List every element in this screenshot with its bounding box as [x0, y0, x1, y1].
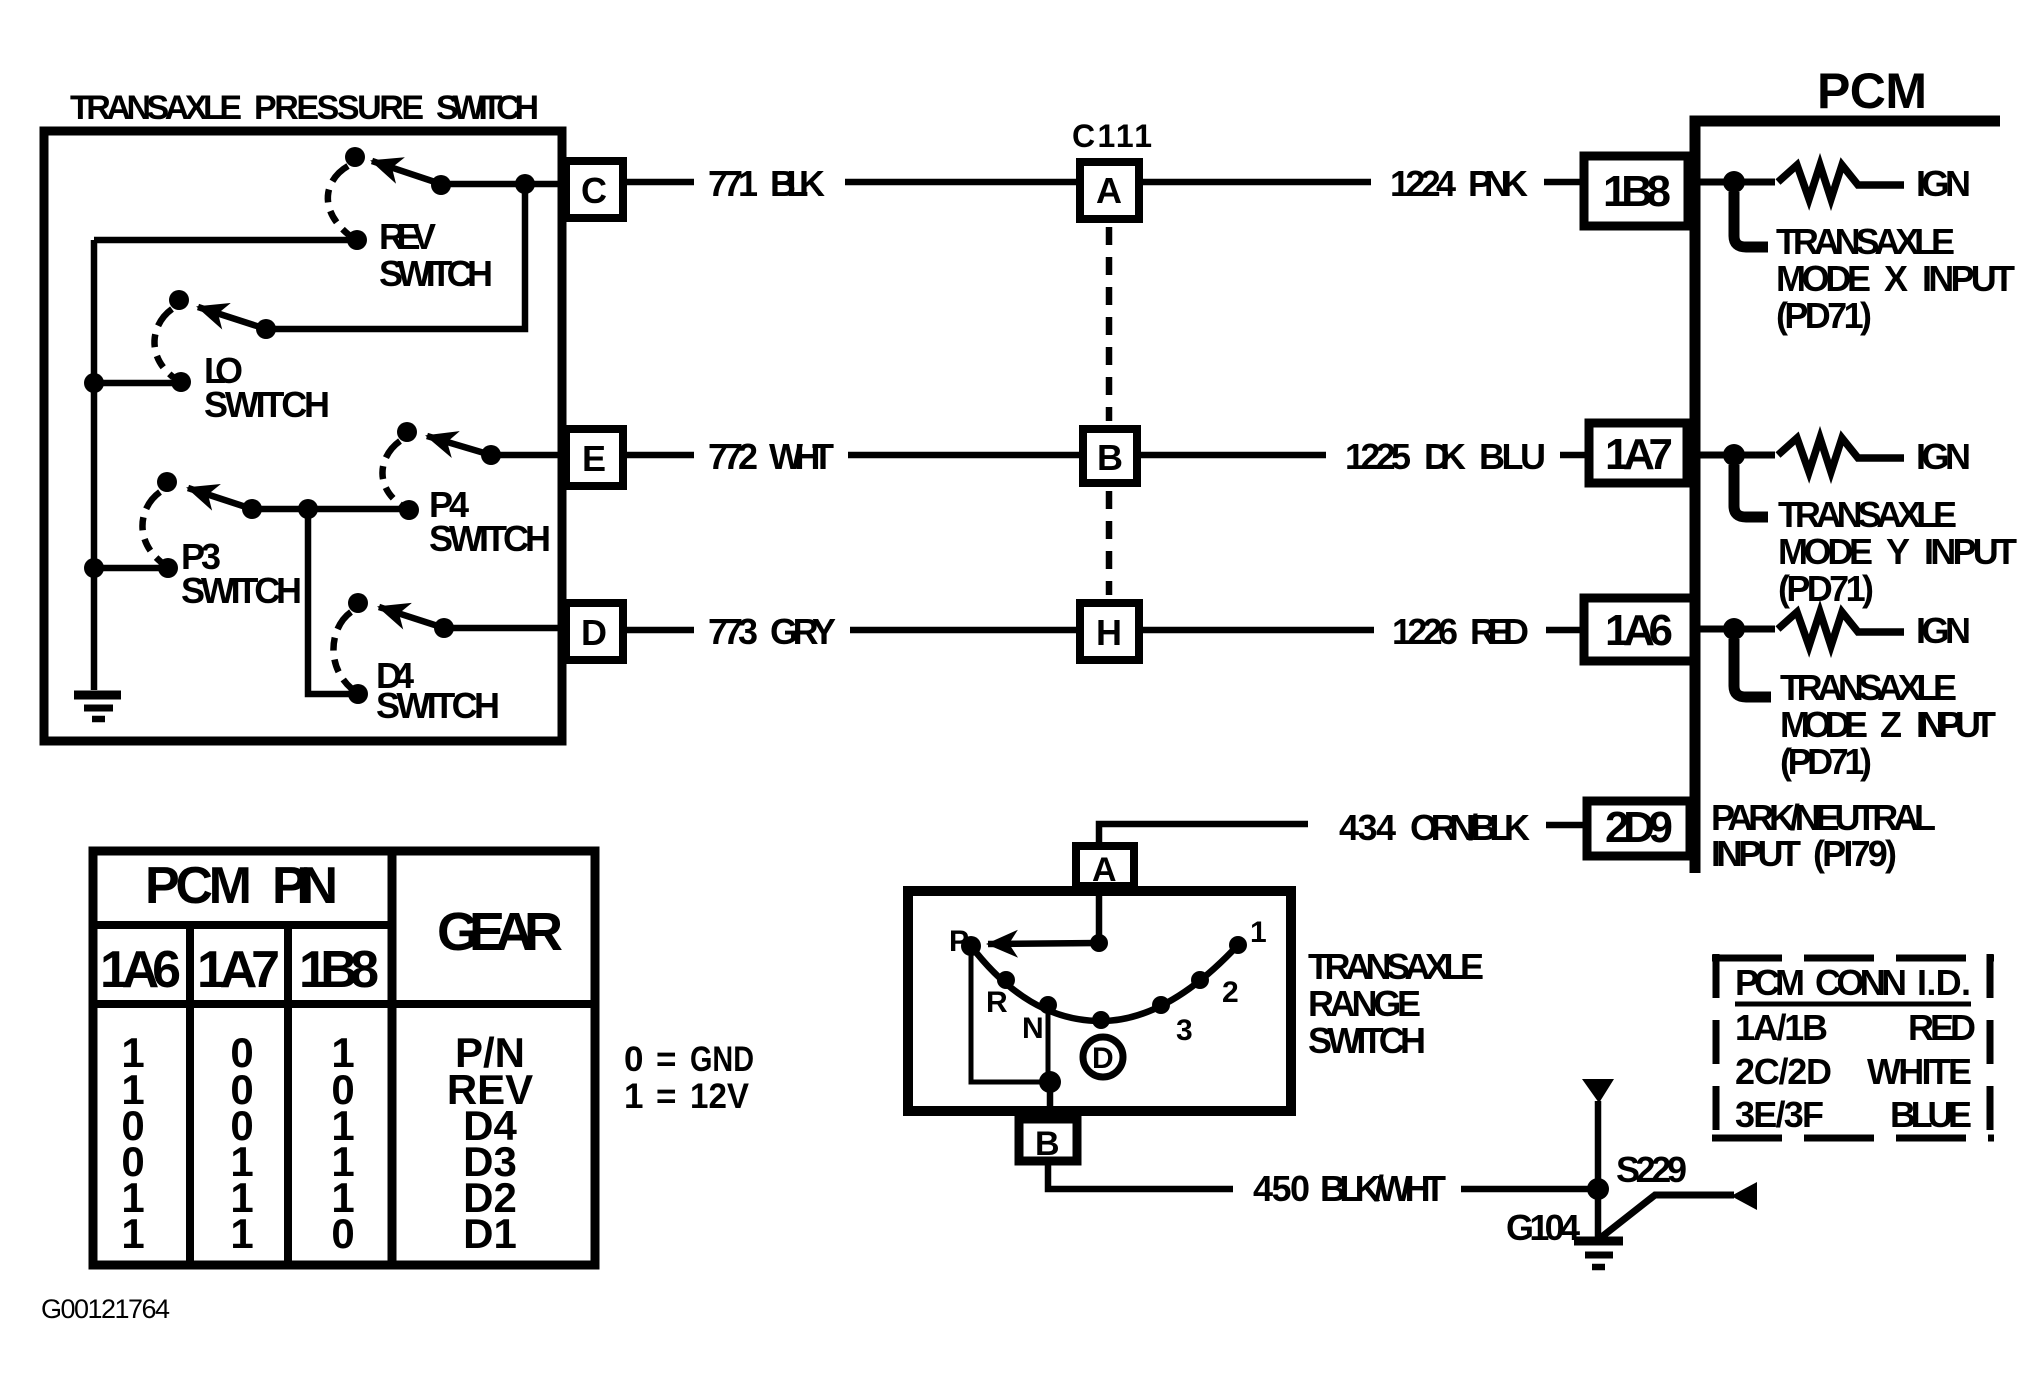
svg-text:IGN: IGN [1916, 163, 1971, 204]
P4 switch wiper arrow [427, 436, 491, 455]
contact 3 [1152, 996, 1170, 1014]
junction P3 common / ground bus [84, 558, 104, 578]
LO switch wiper arrow [198, 307, 266, 329]
wire LO pivot to pin C net [266, 184, 525, 329]
dashed connector link A-B [1106, 227, 1113, 421]
table data column GEAR [447, 1029, 533, 1257]
pin D box [566, 603, 623, 660]
switch D4 [308, 509, 563, 704]
PCM pin 2D9 box [1587, 801, 1690, 856]
D4 switch travel arc [333, 612, 352, 689]
wire 1224 PNK right segment [1544, 179, 1584, 186]
svg-text:C111: C111 [1072, 118, 1152, 154]
svg-text:772: 772 [708, 436, 758, 477]
svg-text:PRESSURE: PRESSURE [254, 89, 424, 127]
svg-text:B: B [1035, 1125, 1060, 1163]
PCM pin 1A7 box [1589, 423, 1687, 483]
svg-text:PCM: PCM [1817, 63, 1927, 119]
P3 switch NO contact [157, 472, 177, 492]
svg-text:C: C [581, 170, 607, 211]
svg-text:=: = [656, 1077, 676, 1116]
svg-text:1A6: 1A6 [100, 941, 181, 999]
wire to ground [1595, 1101, 1602, 1241]
svg-text:GRY: GRY [770, 611, 836, 652]
svg-text:WHITE: WHITE [1867, 1051, 1972, 1092]
svg-text:P: P [949, 925, 969, 958]
svg-text:SWITCH: SWITCH [204, 384, 330, 425]
svg-text:SWITCH: SWITCH [379, 253, 493, 294]
D4 switch pivot contact [434, 618, 454, 638]
svg-text:WHT: WHT [769, 436, 834, 477]
svg-text:Y: Y [1886, 531, 1910, 572]
svg-text:773: 773 [708, 611, 758, 652]
wire 1225 DK BLU left segment [1141, 452, 1326, 459]
svg-text:1225: 1225 [1345, 436, 1411, 477]
wire 1224 PNK left segment [1143, 179, 1371, 186]
svg-text:TRANSAXLE: TRANSAXLE [1780, 667, 1957, 708]
svg-text:E: E [582, 438, 606, 479]
wire 771 BLK left segment [627, 179, 694, 186]
wire 434 ORN/BLK right segment [1546, 822, 1587, 829]
transaxle range switch box [908, 891, 1291, 1111]
svg-text:(PD71): (PD71) [1776, 295, 1872, 336]
junction on pin C wire [515, 174, 535, 194]
continuation wire with arrow [1599, 1195, 1734, 1239]
wire 773 GRY right segment [850, 627, 1080, 634]
PCM PIN / GEAR table [89, 847, 599, 1269]
connector C111 pin A box [1080, 162, 1139, 219]
resistor row 1 (1B8 to IGN) [1700, 165, 1904, 199]
svg-text:INPUT: INPUT [1711, 833, 1801, 874]
table data column 1B8 [331, 1029, 354, 1257]
PCM pin 1A6 box [1584, 598, 1694, 661]
wire 1226 RED right segment [1546, 627, 1584, 634]
svg-text:1: 1 [1250, 916, 1267, 949]
wire contact N to pin B node [1046, 1005, 1051, 1082]
svg-text:INPUT: INPUT [1924, 531, 2017, 572]
node elbow row 3 [1734, 639, 1771, 697]
P4 switch pivot contact [481, 445, 501, 465]
svg-text:434: 434 [1339, 807, 1396, 848]
REV switch pivot contact [431, 175, 451, 195]
PCM box edge [1695, 121, 2000, 873]
svg-text:SWITCH: SWITCH [376, 685, 500, 726]
junction node row 2 [1723, 444, 1745, 466]
svg-text:(PD71): (PD71) [1778, 568, 1874, 609]
svg-text:TRANSAXLE: TRANSAXLE [70, 89, 242, 127]
wire REV pivot to pin C [441, 181, 563, 188]
svg-text:BLK: BLK [770, 163, 825, 204]
svg-text:2D9: 2D9 [1605, 803, 1673, 852]
svg-text:A: A [1092, 851, 1117, 889]
svg-text:D1: D1 [463, 1210, 517, 1257]
svg-text:IGN: IGN [1916, 610, 1971, 651]
svg-text:1A6: 1A6 [1605, 606, 1673, 655]
node on pin A riser [1090, 934, 1108, 952]
transaxle pressure switch box [44, 131, 562, 741]
switch P3 [84, 472, 409, 578]
svg-text:PCM: PCM [145, 857, 252, 915]
svg-text:BLUE: BLUE [1890, 1094, 1972, 1135]
P4 switch travel arc [382, 441, 401, 505]
svg-text:2: 2 [1222, 976, 1239, 1009]
svg-text:RED: RED [1908, 1007, 1976, 1048]
svg-text:=: = [656, 1040, 676, 1079]
svg-text:SWITCH: SWITCH [181, 570, 302, 611]
switch P4 [382, 422, 563, 520]
junction node row 1 [1723, 171, 1745, 193]
splice S229 [1587, 1178, 1609, 1200]
PCM CONN I.D. dashed box [1712, 954, 1994, 1142]
LO switch travel arc [154, 309, 173, 377]
transaxle range switch pin A box [1076, 846, 1134, 886]
svg-text:R: R [986, 986, 1008, 1019]
wire 771 BLK right segment [845, 179, 1080, 186]
pin C box [566, 161, 623, 218]
wire P3 common to ground bus [94, 565, 168, 572]
svg-text:REV: REV [379, 216, 436, 257]
svg-text:1B8: 1B8 [1603, 167, 1671, 216]
svg-text:SWITCH: SWITCH [436, 89, 539, 127]
wire to range pin B [1047, 1082, 1054, 1119]
svg-text:CONN: CONN [1815, 962, 1907, 1003]
switch REV [94, 147, 563, 250]
table data column 1A6 [121, 1029, 144, 1257]
contact 2 [1191, 971, 1209, 989]
svg-text:RED: RED [1470, 611, 1529, 652]
continuation arrow above S229 [1582, 1079, 1614, 1103]
table data column 1A7 [230, 1029, 253, 1257]
svg-text:G104: G104 [1506, 1207, 1580, 1248]
svg-text:TRANSAXLE: TRANSAXLE [1778, 494, 1957, 535]
svg-text:SWITCH: SWITCH [429, 518, 551, 559]
svg-text:N: N [1022, 1012, 1044, 1045]
svg-text:1224: 1224 [1390, 163, 1456, 204]
svg-text:0: 0 [624, 1040, 643, 1079]
contact P [961, 936, 981, 956]
wire 450 BLK/WHT right segment [1461, 1186, 1598, 1193]
pin E box [566, 429, 623, 486]
contact 1 [1229, 936, 1247, 954]
ground [74, 695, 121, 719]
connector C111 pin H box [1080, 603, 1139, 660]
wire LO common to ground bus [94, 380, 181, 387]
svg-text:1A7: 1A7 [1605, 430, 1673, 479]
node elbow row 2 [1734, 465, 1768, 517]
svg-text:MODE: MODE [1780, 704, 1868, 745]
wire D4 pivot to pin D [444, 625, 563, 632]
wire 772 WHT right segment [848, 452, 1083, 459]
svg-text:D: D [581, 612, 607, 653]
svg-text:TRANSAXLE: TRANSAXLE [1308, 946, 1484, 987]
D4 switch NO contact [348, 593, 368, 613]
switch LO [84, 174, 535, 393]
svg-text:PIN: PIN [272, 857, 338, 915]
wire REV common to ground bus [94, 237, 357, 244]
svg-text:(PI79): (PI79) [1813, 833, 1897, 874]
wire 773 GRY left segment [627, 627, 694, 634]
svg-text:H: H [1096, 612, 1122, 653]
svg-text:PNK: PNK [1468, 163, 1528, 204]
P4 switch NO contact [397, 422, 417, 442]
resistor row 2 (1A7 to IGN) [1700, 438, 1904, 472]
D4 switch wiper arrow [379, 607, 444, 628]
svg-text:INPUT: INPUT [1922, 258, 2015, 299]
svg-text:IGN: IGN [1916, 436, 1971, 477]
svg-text:S229: S229 [1616, 1149, 1687, 1190]
dashed connector link B-H [1106, 491, 1113, 595]
range switch contact arc [971, 945, 1238, 1021]
wire 1225 DK BLU right segment [1560, 452, 1589, 459]
ground bus wire [91, 240, 98, 690]
svg-text:1B8: 1B8 [299, 941, 379, 999]
wire range pin A riser [1096, 888, 1103, 943]
svg-text:1A/1B: 1A/1B [1735, 1007, 1828, 1048]
svg-text:X: X [1884, 258, 1908, 299]
svg-text:1: 1 [121, 1210, 144, 1257]
svg-text:SWITCH: SWITCH [1308, 1020, 1426, 1061]
wire 434 ORN/BLK left segment [1099, 824, 1308, 846]
P3 switch wiper arrow [188, 488, 252, 509]
LO switch pivot contact [256, 319, 276, 339]
D4 switch common contact [348, 684, 368, 704]
svg-text:INPUT: INPUT [1916, 704, 1996, 745]
svg-text:1A7: 1A7 [197, 941, 280, 999]
svg-text:Z: Z [1880, 704, 1902, 745]
D position circle [1083, 1037, 1123, 1077]
REV switch travel arc [328, 166, 349, 235]
svg-text:B: B [1097, 437, 1123, 478]
svg-text:PARK/NEUTRAL: PARK/NEUTRAL [1711, 797, 1936, 838]
svg-text:1: 1 [230, 1210, 253, 1257]
P3 switch common contact [158, 558, 178, 578]
transaxle range switch pin B box [1019, 1119, 1077, 1161]
LO switch NO contact [169, 290, 189, 310]
REV switch common contact [347, 230, 367, 250]
REV switch NO contact [345, 147, 365, 167]
svg-text:GEAR: GEAR [437, 902, 563, 962]
wire 772 WHT left segment [627, 452, 694, 459]
LO switch common contact [171, 372, 191, 392]
wire 1226 RED left segment [1143, 627, 1374, 634]
svg-text:MODE: MODE [1778, 531, 1873, 572]
svg-text:TRANSAXLE: TRANSAXLE [1776, 221, 1955, 262]
svg-text:DK: DK [1424, 436, 1466, 477]
junction to D4 branch [298, 499, 318, 519]
range switch internals [961, 888, 1247, 1119]
svg-text:ORN/BLK: ORN/BLK [1410, 807, 1530, 848]
svg-text:0: 0 [331, 1210, 354, 1257]
resistor row 3 (1A6 to IGN) [1700, 612, 1904, 646]
junction node row 3 [1723, 618, 1745, 640]
svg-text:BLU: BLU [1479, 436, 1546, 477]
junction P/N to pin B [1039, 1071, 1061, 1093]
REV switch wiper arrow [372, 161, 441, 184]
svg-text:RANGE: RANGE [1308, 983, 1421, 1024]
svg-text:G00121764: G00121764 [41, 1294, 170, 1324]
P4 switch common contact [399, 500, 419, 520]
svg-text:450: 450 [1253, 1168, 1310, 1209]
svg-text:PCM: PCM [1735, 962, 1805, 1003]
P3 switch pivot contact [242, 499, 262, 519]
wire 450 BLK/WHT left segment [1048, 1161, 1233, 1189]
wire D4 common branch [308, 509, 358, 694]
contact R [997, 971, 1015, 989]
svg-text:GND: GND [690, 1040, 754, 1079]
svg-text:3E/3F: 3E/3F [1735, 1094, 1824, 1135]
wire P3 pivot to P4 common [252, 506, 409, 513]
P3 switch travel arc [142, 492, 161, 562]
svg-text:771: 771 [708, 163, 758, 204]
svg-text:1226: 1226 [1392, 611, 1458, 652]
ground G104 [1574, 1241, 1623, 1267]
wire P4 pivot to pin E [491, 452, 563, 459]
connector C111 pin B box [1083, 429, 1137, 483]
range switch wiper arrow to P [988, 943, 1099, 944]
svg-text:1: 1 [624, 1077, 643, 1116]
PCM pin 1B8 box [1584, 156, 1688, 226]
junction LO common / ground bus [84, 373, 104, 393]
svg-text:MODE: MODE [1776, 258, 1871, 299]
svg-text:I.D.: I.D. [1917, 962, 1971, 1003]
wire contact P to pin B node [971, 946, 1050, 1082]
svg-text:(PD71): (PD71) [1780, 741, 1872, 782]
svg-text:BLK/WHT: BLK/WHT [1320, 1168, 1446, 1209]
contact N [1039, 996, 1057, 1014]
svg-text:2C/2D: 2C/2D [1735, 1051, 1832, 1092]
node elbow row 1 [1734, 192, 1768, 247]
svg-text:A: A [1096, 170, 1122, 211]
svg-text:D: D [1092, 1042, 1114, 1075]
contact D [1092, 1011, 1110, 1029]
svg-text:12V: 12V [690, 1077, 750, 1116]
svg-text:3: 3 [1176, 1014, 1193, 1047]
